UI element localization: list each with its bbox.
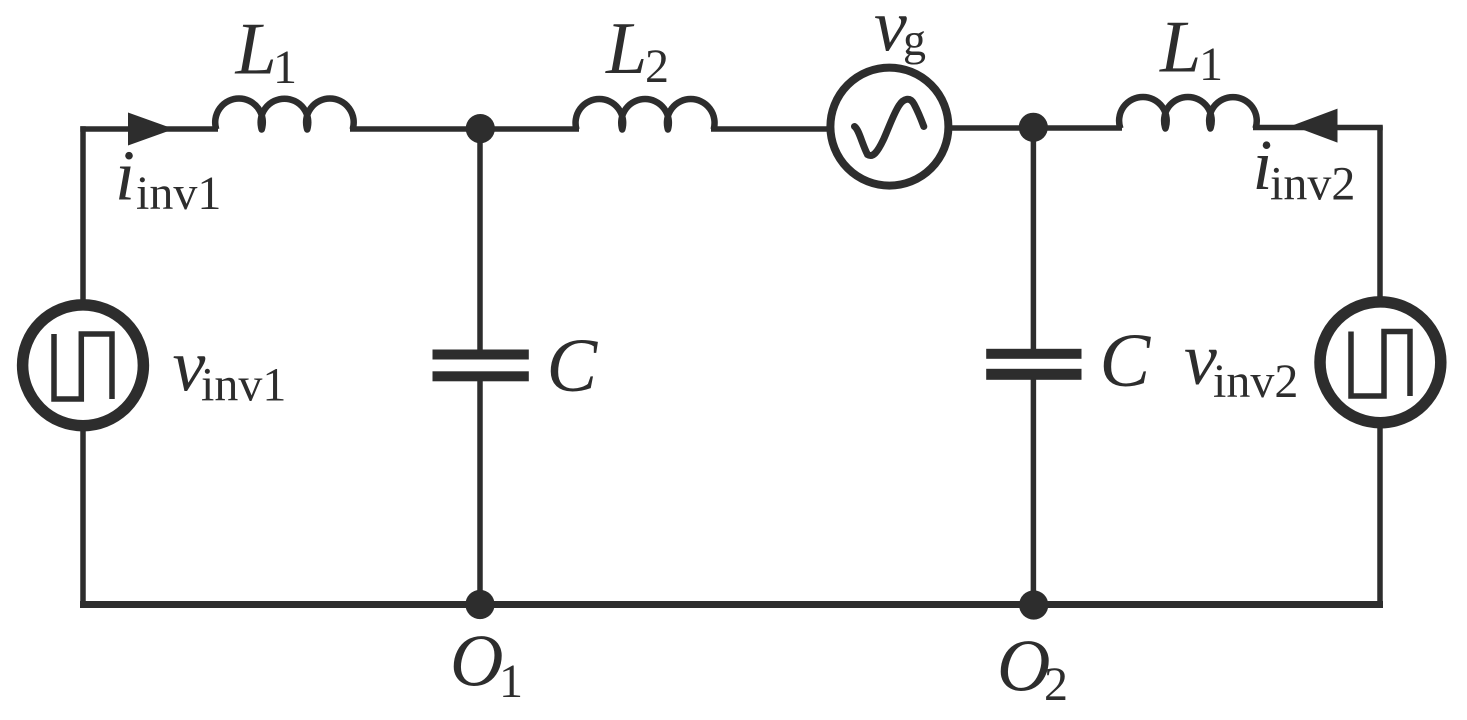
svg-text:O: O — [997, 626, 1050, 708]
wire left vertical lower — [80, 428, 86, 605]
svg-text:C: C — [1100, 319, 1152, 403]
svg-text:L: L — [235, 9, 277, 91]
wire left vertical upper — [80, 126, 86, 302]
source v_inv1 square-wave symbol — [54, 334, 112, 399]
svg-text:1: 1 — [499, 655, 523, 708]
capacitor C2 bottom plate — [986, 369, 1081, 380]
capacitor C2 top plate — [986, 349, 1081, 359]
inductor L1 left coil — [215, 99, 353, 130]
svg-text:2: 2 — [645, 40, 669, 93]
capacitor C1 bottom plate — [433, 371, 529, 381]
arrow i_inv2 (left-pointing) — [1292, 109, 1338, 143]
svg-text:g: g — [903, 14, 926, 65]
capacitor C1 top plate — [433, 350, 529, 360]
source v_g circle — [830, 68, 948, 186]
node junction top-left (above O1) — [466, 114, 495, 143]
inductor L1 right coil — [1119, 97, 1257, 129]
node O1 — [465, 590, 494, 619]
wire capacitor C1 branch lower — [477, 380, 483, 605]
svg-text:inv2: inv2 — [1270, 158, 1355, 211]
wire capacitor C2 branch upper — [1031, 128, 1037, 350]
svg-text:O: O — [450, 621, 503, 703]
wire top between vg source and right L1 (through node O2 top) — [951, 125, 1122, 131]
wire bottom horizontal — [80, 601, 1383, 608]
source v_inv1 circle — [23, 305, 144, 426]
wire capacitor C1 branch upper — [477, 129, 483, 351]
svg-text:2: 2 — [1044, 658, 1068, 711]
wire top-left horizontal — [80, 126, 218, 132]
source v_g sine symbol — [855, 99, 924, 155]
svg-text:inv1: inv1 — [136, 167, 221, 220]
svg-text:inv2: inv2 — [1213, 355, 1298, 408]
wire capacitor C2 branch lower — [1031, 379, 1037, 605]
node junction top-right (above O2) — [1019, 113, 1048, 142]
svg-text:inv1: inv1 — [201, 359, 286, 412]
source v_inv2 square-wave symbol — [1351, 332, 1410, 397]
svg-text:1: 1 — [1199, 38, 1223, 91]
svg-text:L: L — [1159, 7, 1201, 89]
arrow i_inv1 (right-pointing) — [128, 113, 174, 146]
inductor L2 coil — [576, 99, 715, 129]
svg-text:C: C — [547, 324, 599, 408]
wire top-right horizontal from L1 to corner — [1253, 125, 1383, 131]
svg-text:1: 1 — [273, 41, 297, 94]
wire top between L1 and L2 (through node) — [350, 126, 579, 132]
node O2 — [1019, 590, 1048, 619]
wire right vertical upper — [1377, 126, 1383, 299]
wire right vertical lower — [1377, 425, 1383, 605]
source v_inv2 circle — [1320, 302, 1441, 423]
svg-text:L: L — [605, 8, 647, 90]
wire top between L2 and vg source — [711, 126, 828, 132]
svg-text:i: i — [115, 136, 135, 216]
